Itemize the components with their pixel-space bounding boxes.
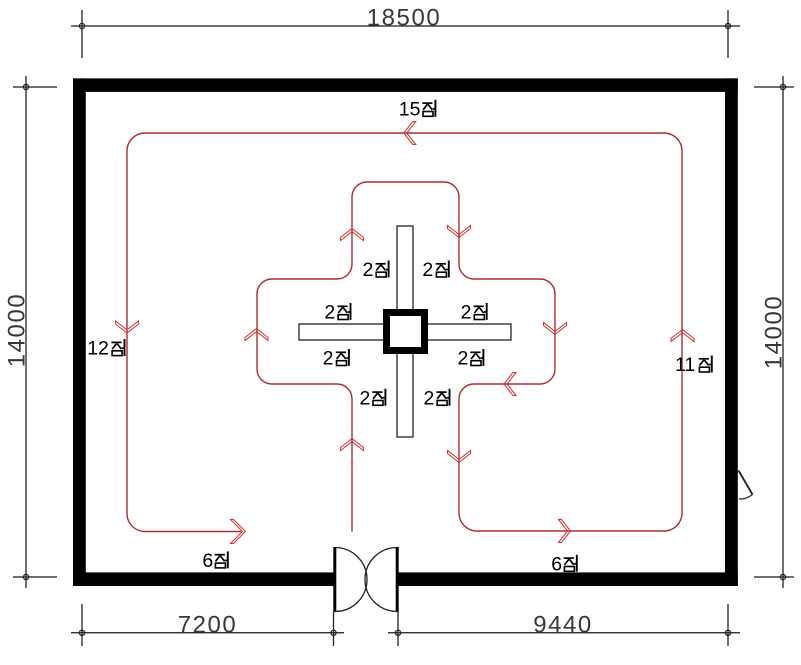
svg-text:2: 2 xyxy=(324,302,335,324)
label 6점 left xyxy=(202,550,227,572)
beam vertical xyxy=(397,226,413,437)
svg-text:2: 2 xyxy=(362,259,373,281)
svg-text:18500: 18500 xyxy=(367,5,442,32)
svg-text:7200: 7200 xyxy=(178,611,238,638)
door jamb right xyxy=(396,547,399,646)
svg-text:2: 2 xyxy=(422,259,433,281)
svg-text:2: 2 xyxy=(423,387,434,409)
svg-text:2: 2 xyxy=(323,348,334,370)
beam horizontal xyxy=(299,324,511,340)
dimension line right 14000 xyxy=(754,76,794,588)
dimension line top 18500 xyxy=(71,10,740,58)
door leaf arc right xyxy=(365,548,397,612)
red loop around column cross xyxy=(257,182,555,399)
arrow up on bottom center vertical xyxy=(341,439,364,451)
red loop connector to bottom-right bay xyxy=(459,399,682,531)
svg-text:9440: 9440 xyxy=(533,611,593,638)
arrow left on outer top horizontal xyxy=(404,122,416,145)
wall left xyxy=(73,78,86,586)
arrow down on right arm vertical xyxy=(544,323,567,335)
label 15점 xyxy=(399,99,436,121)
arrow right at line end bottom left xyxy=(231,520,246,544)
label 12점 xyxy=(87,338,124,360)
svg-text:14000: 14000 xyxy=(4,293,31,368)
label 11점 xyxy=(675,354,712,376)
label 2점 bottom-right xyxy=(423,387,449,409)
arrow right on bottom right horizontal xyxy=(559,520,571,543)
wall bottom left of door xyxy=(73,572,336,586)
svg-text:6: 6 xyxy=(551,553,562,575)
arrow up on inner-top left vertical xyxy=(341,229,364,241)
wall vent flap right xyxy=(739,471,753,500)
label 2점 bottom-left xyxy=(360,387,386,409)
svg-text:2: 2 xyxy=(457,348,468,370)
wall top xyxy=(73,78,738,92)
svg-text:14000: 14000 xyxy=(761,295,788,370)
label 2점 right-bottom xyxy=(457,348,483,370)
arrow down on outer left vertical xyxy=(116,321,139,333)
dimension line bottom 7200 / 9440 xyxy=(71,604,740,646)
dimension line left 14000 xyxy=(13,76,57,588)
label 2점 right-top xyxy=(461,302,487,324)
arrow down on bottom right vertical xyxy=(448,451,471,463)
door leaf arc left xyxy=(335,548,367,612)
wall bottom right of door xyxy=(396,572,738,586)
svg-text:12: 12 xyxy=(87,338,109,360)
svg-text:6: 6 xyxy=(202,550,213,572)
door jamb left xyxy=(333,547,336,646)
svg-text:15: 15 xyxy=(399,99,421,121)
wall right xyxy=(725,78,738,586)
svg-text:2: 2 xyxy=(461,302,472,324)
arrow up on outer right vertical xyxy=(671,330,694,342)
arrow down on inner-top right vertical xyxy=(448,226,471,238)
label 2점 inner top-left xyxy=(362,259,388,281)
label 6점 right xyxy=(551,553,577,575)
label 2점 inner top-right xyxy=(422,259,448,281)
label 2점 left-top xyxy=(324,302,350,324)
red outer perimeter loop xyxy=(127,133,682,532)
label 2점 left-bottom xyxy=(323,348,349,370)
arrow up on left arm vertical xyxy=(245,329,268,341)
svg-text:2: 2 xyxy=(360,387,371,409)
arrow left on right arm bottom xyxy=(504,373,516,396)
red loop tail from door xyxy=(351,399,353,532)
svg-text:11: 11 xyxy=(675,354,695,376)
column xyxy=(387,313,425,351)
